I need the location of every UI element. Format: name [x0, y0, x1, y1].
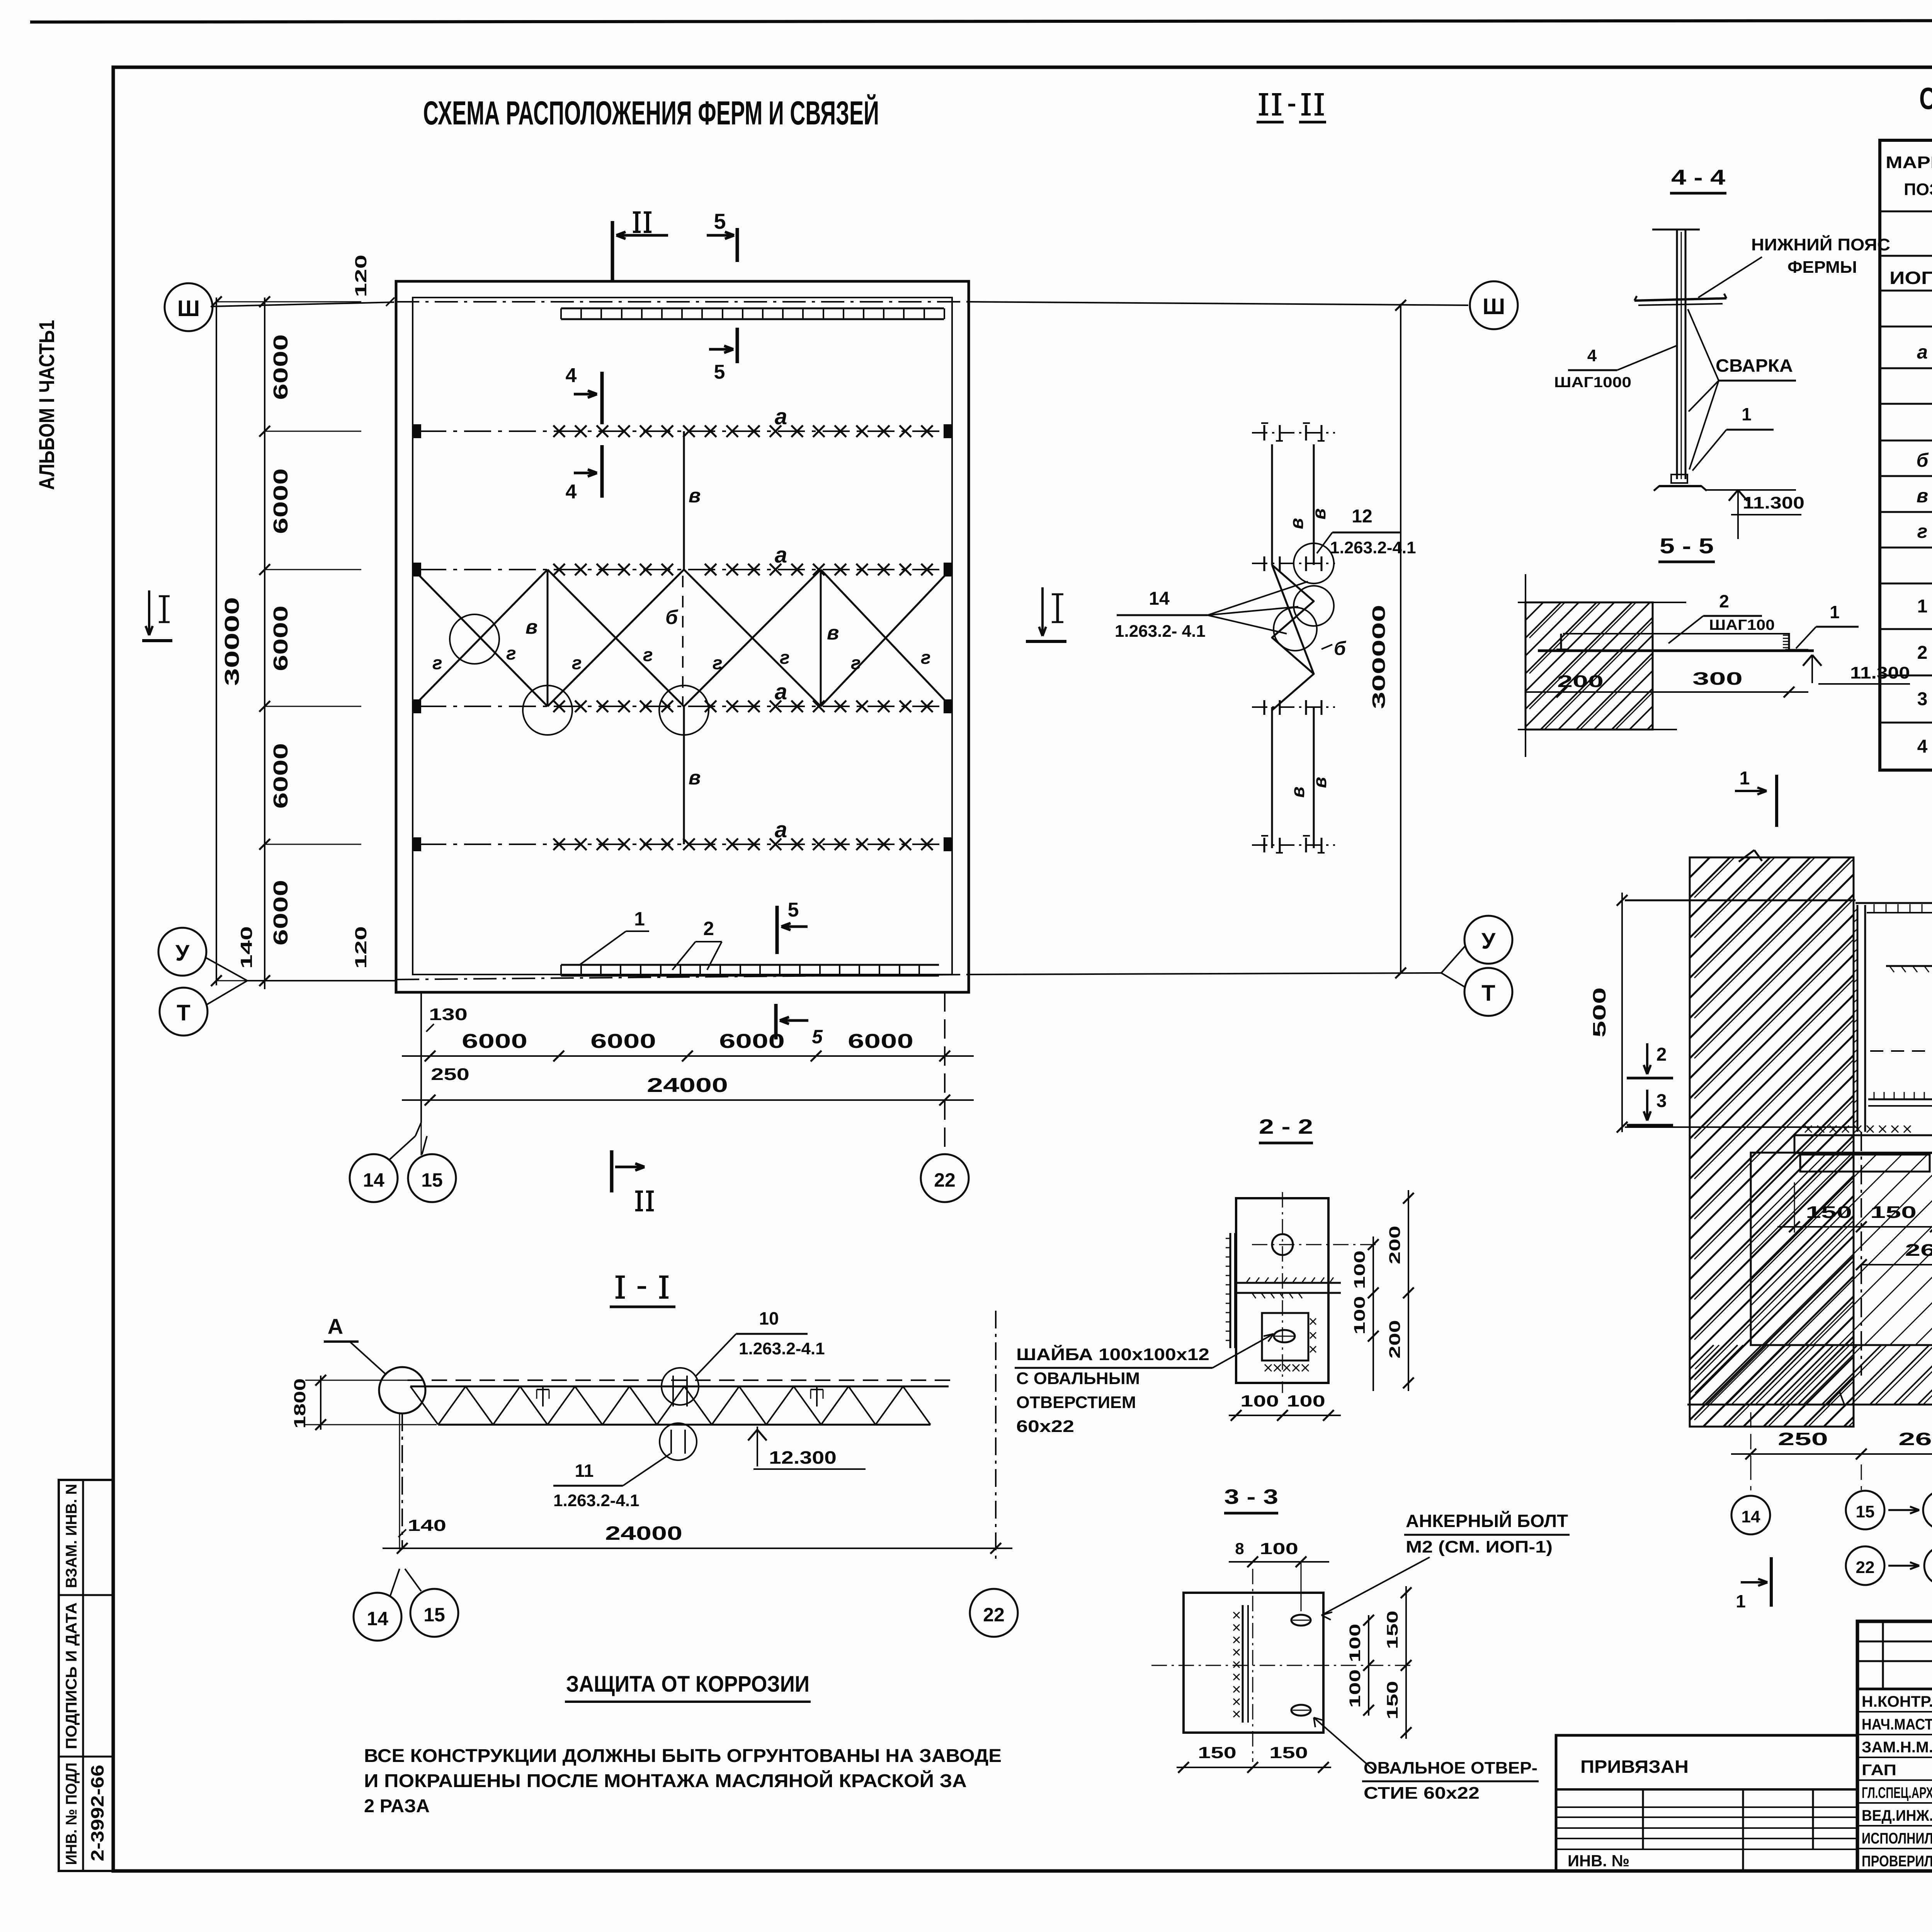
svg-text:г: г — [780, 648, 790, 668]
svg-text:г: г — [432, 653, 442, 673]
svg-text:1.263.2-4.1: 1.263.2-4.1 — [1330, 538, 1416, 557]
svg-text:4: 4 — [566, 481, 577, 503]
elevation I-I left axis — [401, 1413, 403, 1549]
plan strut в at x=2124 — [820, 570, 822, 706]
truss a row 3 axis — [419, 706, 947, 707]
svg-text:5: 5 — [714, 361, 725, 383]
svg-text:11: 11 — [575, 1461, 594, 1481]
detail A foundation center axis — [1861, 1132, 1862, 1376]
svg-text:150: 150 — [1384, 1681, 1401, 1719]
svg-text:У: У — [175, 940, 190, 966]
title block line under top section — [1857, 1688, 1932, 1690]
section II-II title — [1262, 94, 1265, 114]
svg-text:15: 15 — [421, 1169, 443, 1191]
II-II connection row 2 — [1264, 556, 1265, 571]
II-II brace zigzag — [1272, 565, 1314, 710]
detail 2-2 beam — [1236, 1282, 1341, 1284]
detail 2-2 dim bottom 100 100 — [1229, 1415, 1341, 1416]
left dim chain extension lines — [265, 431, 361, 432]
svg-text:100: 100 — [1347, 1624, 1364, 1662]
section mark I right — [1026, 640, 1066, 643]
left strip divider 2 — [59, 1756, 114, 1758]
svg-text:МАРКА,: МАРКА, — [1886, 153, 1932, 172]
svg-text:Ш: Ш — [177, 296, 200, 321]
svg-text:30000: 30000 — [221, 597, 243, 686]
svg-text:24000: 24000 — [605, 1522, 682, 1544]
detail 4-4 elevation 11.300 — [1706, 489, 1796, 491]
svg-text:И ПОКРАШЕНЫ ПОСЛЕ МОНТАЖА: И ПОКРАШЕНЫ ПОСЛЕ МОНТАЖА МАСЛЯНОЙ КРАСК… — [364, 1770, 967, 1791]
detail 3-3 plate — [1184, 1593, 1323, 1733]
detail A dim 150 150 — [1794, 1182, 1795, 1233]
truss a row 2 axis — [419, 569, 947, 570]
detail 5-5 wall top line — [1518, 602, 1686, 603]
svg-text:5: 5 — [788, 899, 799, 921]
svg-text:ШАГ100: ШАГ100 — [1709, 617, 1775, 633]
elevation I-I elevation 12.300 — [748, 1430, 757, 1440]
svg-text:в: в — [1310, 777, 1330, 788]
svg-text:4: 4 — [1917, 736, 1928, 757]
svg-text:100: 100 — [1351, 1250, 1368, 1289]
svg-text:1.263.2-4.1: 1.263.2-4.1 — [739, 1339, 825, 1358]
svg-text:140: 140 — [237, 926, 255, 969]
svg-text:12.300: 12.300 — [769, 1447, 837, 1468]
svg-text:ЗАЩИТА ОТ КОРРОЗИИ: ЗАЩИТА ОТ КОРРОЗИИ — [566, 1672, 810, 1697]
svg-text:a: a — [1917, 341, 1928, 363]
detail 2-2 center lines — [1252, 1244, 1378, 1245]
svg-text:1: 1 — [1830, 602, 1840, 622]
svg-text:a: a — [775, 543, 787, 568]
svg-text:г: г — [1917, 520, 1928, 542]
svg-text:ФЕРМЫ: ФЕРМЫ — [1787, 258, 1857, 277]
svg-text:300: 300 — [1692, 668, 1743, 689]
svg-text:150: 150 — [1870, 1203, 1917, 1222]
svg-text:АНКЕРНЫЙ БОЛТ: АНКЕРНЫЙ БОЛТ — [1406, 1511, 1568, 1531]
svg-text:150: 150 — [1269, 1743, 1308, 1762]
strut в upper — [683, 431, 685, 570]
svg-text:Т: Т — [177, 1000, 190, 1026]
detail 5-5 right bracket — [1788, 633, 1790, 650]
II-II connection row 3 — [1264, 700, 1265, 715]
elevation I-I web — [438, 1386, 930, 1425]
svg-text:г: г — [572, 653, 582, 673]
svg-text:5: 5 — [812, 1026, 823, 1048]
section mark 5 upper-mid — [736, 328, 739, 363]
svg-text:15: 15 — [1856, 1502, 1875, 1521]
svg-text:6000: 6000 — [270, 605, 292, 671]
detail 2-2 dim 100 100 right inner — [1372, 1236, 1374, 1391]
svg-text:8: 8 — [1235, 1539, 1244, 1558]
svg-text:Н.КОНТР.: Н.КОНТР. — [1862, 1693, 1932, 1710]
page top border line — [30, 20, 1932, 22]
grid circle Т right — [1464, 968, 1512, 1016]
svg-text:в: в — [1287, 518, 1307, 529]
section mark II top — [611, 221, 614, 281]
elevation I-I dim 1800 — [320, 1376, 321, 1430]
svg-text:14: 14 — [1149, 588, 1170, 609]
svg-text:в: в — [1309, 509, 1330, 520]
svg-text:ШАЙБА 100х100х12: ШАЙБА 100х100х12 — [1016, 1344, 1209, 1364]
II-II chord left — [1271, 444, 1273, 565]
truss a row 2 x-marks — [553, 564, 565, 575]
elevation I-I dim 24000 — [383, 1548, 1012, 1549]
svg-text:1800: 1800 — [291, 1378, 309, 1429]
svg-text:6000: 6000 — [270, 880, 292, 946]
II-II detail circle 1 — [1294, 543, 1334, 583]
svg-text:СПЕЦИФИКАЦИЯ К СХЕМЕ РАСПОЛ: СПЕЦИФИКАЦИЯ К СХЕМЕ РАСПОЛОЖЕНИЯ ФЕРМ И… — [1919, 81, 1932, 116]
elevation I-I detail circle top — [662, 1368, 699, 1405]
svg-text:1: 1 — [1736, 1591, 1746, 1611]
plan detail circle 3 — [659, 685, 709, 735]
svg-text:6000: 6000 — [462, 1030, 527, 1053]
svg-text:С ОВАЛЬНЫМ: С ОВАЛЬНЫМ — [1016, 1369, 1140, 1388]
detail 4-4 top tick — [1652, 229, 1700, 231]
detail 5-5 elevation 11.300 — [1803, 655, 1812, 666]
svg-text:a: a — [775, 679, 787, 704]
svg-text:100: 100 — [1240, 1392, 1279, 1410]
svg-text:500: 500 — [1589, 987, 1609, 1037]
II-II chord right — [1313, 444, 1315, 565]
detail 4-4 column — [1676, 230, 1678, 479]
truss a row 3 x-marks — [553, 701, 565, 712]
svg-text:СТИЕ 60х22: СТИЕ 60х22 — [1364, 1784, 1480, 1803]
svg-text:ВЗАМ. ИНВ. N: ВЗАМ. ИНВ. N — [63, 1484, 80, 1588]
svg-text:22: 22 — [983, 1604, 1005, 1626]
svg-text:ПОДПИСЬ И ДАТА: ПОДПИСЬ И ДАТА — [63, 1602, 80, 1749]
truss a row 4 x-marks — [553, 838, 565, 850]
detail 2-2 washer oval — [1274, 1330, 1295, 1342]
detail 3-3 dim right 150 150 — [1405, 1586, 1407, 1739]
detail 2-2 dim 200 200 right outer — [1408, 1190, 1409, 1391]
title block top small grid — [1857, 1641, 1932, 1643]
II-II dim 300000 line — [1400, 304, 1401, 974]
truss a row 4 axis — [419, 844, 947, 845]
svg-text:г: г — [643, 645, 653, 665]
svg-text:1.263.2- 4.1: 1.263.2- 4.1 — [1115, 622, 1206, 641]
svg-text:в: в — [1917, 485, 1928, 507]
detail A wall hatched — [1690, 857, 1854, 1427]
svg-text:130: 130 — [429, 1005, 468, 1024]
detail A axis circle 15-22 — [1861, 1464, 1862, 1490]
svg-text:1: 1 — [1742, 404, 1752, 424]
svg-text:10: 10 — [759, 1308, 779, 1328]
detail A top-left line — [1625, 900, 1855, 901]
svg-text:22: 22 — [1856, 1558, 1875, 1577]
left dim 30000 line — [216, 298, 217, 985]
plan bottom axis 22 extension — [944, 992, 946, 1153]
svg-text:ПОЗ.: ПОЗ. — [1904, 180, 1932, 199]
detail 3-3 dim bottom 150 150 — [1177, 1767, 1331, 1768]
svg-text:б: б — [665, 606, 679, 629]
II-II connection row 1 — [1264, 425, 1265, 440]
II-II detail circle 2 — [1294, 586, 1334, 626]
truss a row 2 end plates — [413, 563, 420, 576]
plan axis circle 15 — [408, 1154, 456, 1202]
elevation I-I right axis — [995, 1311, 997, 1563]
svg-text:5: 5 — [714, 209, 726, 233]
section mark 4 lower — [600, 445, 604, 498]
title block outer — [1857, 1621, 1932, 1871]
detail 5-5 wall hatched block — [1526, 602, 1653, 730]
svg-text:2 РАЗА: 2 РАЗА — [364, 1796, 430, 1816]
elevation I-I posts — [542, 1386, 544, 1406]
detail 5-5 beam top line — [1563, 633, 1789, 634]
svg-text:260: 260 — [1898, 1429, 1932, 1449]
svg-text:a: a — [775, 404, 787, 429]
elevation I-I axis circle 22 — [970, 1589, 1018, 1637]
elevation I-I axis circle 14 — [354, 1593, 401, 1641]
elevation I-I detail circle bottom — [660, 1423, 697, 1460]
detail 3-3 anchor strip — [1242, 1605, 1244, 1723]
svg-text:ОВАЛЬНОЕ ОТВЕР-: ОВАЛЬНОЕ ОТВЕР- — [1364, 1759, 1537, 1777]
svg-text:11.300: 11.300 — [1850, 663, 1910, 682]
svg-text:1.263.2-4.1: 1.263.2-4.1 — [553, 1491, 639, 1510]
svg-text:б: б — [1334, 638, 1347, 659]
detail 2-2 washer hatch — [1265, 1364, 1272, 1371]
svg-text:ИНВ. № ПОДЛ: ИНВ. № ПОДЛ — [63, 1763, 80, 1865]
svg-text:4 - 4: 4 - 4 — [1671, 165, 1725, 189]
привязан grid — [1556, 1806, 1857, 1808]
svg-text:150: 150 — [1384, 1611, 1401, 1649]
plan outer wall — [396, 281, 969, 992]
svg-text:4: 4 — [566, 364, 577, 387]
svg-text:100: 100 — [1287, 1392, 1325, 1410]
svg-text:Ш: Ш — [1483, 294, 1505, 319]
svg-text:в: в — [526, 616, 537, 638]
plan axis circle 22 — [921, 1154, 969, 1202]
detail 2-2 side strip — [1230, 1233, 1231, 1348]
svg-text:ЗАМ.Н.М.: ЗАМ.Н.М. — [1862, 1739, 1932, 1756]
svg-text:СХЕМА РАСПОЛОЖЕНИЯ ФЕРМ И: СХЕМА РАСПОЛОЖЕНИЯ ФЕРМ И СВЯЗЕЙ — [423, 94, 879, 132]
detail 3-3 dim right 100 100 — [1368, 1615, 1369, 1716]
svg-text:А: А — [328, 1314, 343, 1338]
svg-text:АЛЬБОМ I ЧАСТЬ1: АЛЬБОМ I ЧАСТЬ1 — [34, 320, 59, 490]
section mark 5 lower — [776, 906, 779, 954]
bottom wall purlin strip — [561, 964, 939, 966]
svg-text:15: 15 — [423, 1604, 445, 1626]
II-II detail circle 3 — [1274, 607, 1317, 651]
svg-text:6000: 6000 — [270, 743, 292, 809]
truss a row 1 end plates — [413, 425, 420, 437]
svg-text:250: 250 — [1778, 1429, 1828, 1449]
svg-text:СВАРКА: СВАРКА — [1716, 355, 1793, 376]
detail 2-2 washer — [1262, 1313, 1308, 1361]
plan detail circle 1 — [450, 614, 499, 664]
truss a row 1 axis — [419, 430, 947, 432]
svg-text:ШАГ1000: ШАГ1000 — [1554, 374, 1631, 391]
strut в lower — [683, 706, 685, 844]
left strip outer box — [59, 1480, 114, 1871]
svg-text:М2 (СМ. ИОП-1): М2 (СМ. ИОП-1) — [1406, 1537, 1553, 1556]
svg-text:3: 3 — [1656, 1091, 1667, 1111]
detail 5-5 beam plate — [1538, 650, 1814, 652]
detail 2-2 plate — [1236, 1198, 1328, 1383]
detail A foundation — [1751, 1153, 1932, 1345]
svg-text:г: г — [851, 653, 861, 673]
svg-text:6000: 6000 — [590, 1030, 656, 1053]
svg-text:5 - 5: 5 - 5 — [1660, 534, 1714, 558]
svg-text:в: в — [1288, 787, 1308, 798]
detail 3-3 center lines — [1252, 1569, 1253, 1762]
svg-text:6000: 6000 — [270, 334, 292, 400]
section mark 2 down — [1646, 1043, 1648, 1074]
svg-text:НАЧ.МАСТ: НАЧ.МАСТ — [1862, 1716, 1932, 1733]
svg-text:12: 12 — [1352, 506, 1372, 527]
plan bottom dim 24000 — [402, 1099, 974, 1101]
elevation I-I detail circle A — [379, 1367, 425, 1413]
svg-text:3 - 3: 3 - 3 — [1224, 1485, 1278, 1509]
svg-text:150: 150 — [1198, 1743, 1236, 1762]
svg-text:100: 100 — [1347, 1669, 1364, 1708]
svg-text:НИЖНИЙ ПОЯС: НИЖНИЙ ПОЯС — [1751, 235, 1890, 254]
svg-text:ИСПОЛНИЛ: ИСПОЛНИЛ — [1862, 1830, 1932, 1847]
svg-text:ПРИВЯЗАН: ПРИВЯЗАН — [1580, 1757, 1689, 1777]
detail 4-4 flange — [1634, 298, 1726, 301]
svg-text:120: 120 — [352, 255, 370, 297]
svg-text:100: 100 — [1351, 1296, 1368, 1335]
grid circle У left — [158, 928, 206, 976]
svg-text:б: б — [1917, 449, 1929, 471]
detail A column — [1857, 905, 1859, 1132]
detail A axis circle 14 — [1750, 1464, 1752, 1490]
svg-text:ПРОВЕРИЛ: ПРОВЕРИЛ — [1862, 1853, 1932, 1870]
detail 4-4 base plate — [1671, 474, 1687, 483]
svg-text:24000: 24000 — [647, 1074, 728, 1097]
svg-text:200: 200 — [1386, 1226, 1403, 1264]
svg-text:300000: 300000 — [1369, 605, 1389, 709]
detail A xxx hatch under column — [1805, 1126, 1812, 1133]
svg-text:11.300: 11.300 — [1743, 493, 1804, 512]
svg-text:ИНВ. №: ИНВ. № — [1568, 1852, 1629, 1870]
svg-text:ОТВЕРСТИЕМ: ОТВЕРСТИЕМ — [1016, 1393, 1136, 1412]
svg-text:2: 2 — [703, 918, 714, 939]
detail 5-5 angle seat — [1560, 634, 1562, 650]
plan detail circle 2 — [523, 685, 572, 735]
svg-text:ГЛ.СПЕЦ.АРХ: ГЛ.СПЕЦ.АРХ — [1862, 1784, 1932, 1801]
left strip divider 1 — [59, 1594, 114, 1596]
truss a row 4 end plates — [413, 838, 420, 850]
привязан block — [1556, 1735, 1857, 1871]
section mark 1 below detail A — [1770, 1557, 1773, 1607]
detail A bottom axis dim 250 260 — [1750, 1412, 1752, 1464]
svg-text:4: 4 — [1587, 346, 1597, 365]
svg-text:2: 2 — [1656, 1044, 1667, 1065]
elevation I-I title — [619, 1277, 622, 1298]
truss a row 3 end plates — [413, 700, 420, 713]
svg-text:6000: 6000 — [270, 468, 292, 534]
detail A lower band break — [1828, 1391, 1839, 1405]
detail A wall top break — [1739, 850, 1754, 862]
detail 5-5 dim 200-300 — [1526, 691, 1808, 693]
truss a row 1 x-marks — [553, 425, 565, 437]
svg-text:1: 1 — [1917, 596, 1928, 617]
plan inner wall — [413, 298, 952, 975]
elevation I-I axis circle 15 — [410, 1589, 458, 1637]
detail A bearing plates — [1794, 1135, 1932, 1153]
svg-text:260: 260 — [1905, 1241, 1932, 1260]
left dim chain 6000 line — [264, 298, 265, 989]
detail A axis line — [1625, 1126, 1855, 1128]
svg-text:2-3992-66: 2-3992-66 — [87, 1765, 107, 1861]
svg-text:в: в — [827, 622, 839, 644]
cross braces г between rows 2-3 — [413, 570, 548, 706]
svg-text:60х22: 60х22 — [1016, 1417, 1074, 1436]
section mark I left of plan — [142, 639, 172, 642]
plan bottom axis 15 extension — [420, 992, 422, 1122]
detail 5-5 wall bottom line — [1518, 729, 1677, 730]
detail A dim 260 — [1861, 1264, 1932, 1265]
section mark II below plan — [610, 1150, 614, 1192]
grid circle У right — [1464, 916, 1512, 964]
plan axis circle 14 — [350, 1154, 398, 1202]
II-II connection row 4 — [1264, 838, 1265, 852]
elevation I-I bottom chord — [438, 1424, 930, 1426]
svg-text:Т: Т — [1481, 981, 1495, 1006]
svg-text:ВЕД.ИНЖ.: ВЕД.ИНЖ. — [1862, 1807, 1932, 1824]
svg-text:г: г — [506, 643, 516, 664]
detail 3-3 oval top — [1291, 1615, 1311, 1626]
section mark 3 down — [1646, 1090, 1648, 1121]
detail A top beam — [1855, 902, 1932, 904]
detail A foundation lower band — [1690, 1345, 1932, 1405]
section mark 5 below plan — [774, 1004, 778, 1039]
svg-text:100: 100 — [1260, 1539, 1298, 1558]
detail A axis circle 22-15 — [1846, 1546, 1884, 1585]
plan strut в at x=1417 — [547, 570, 549, 706]
plan bottom dim chain 6000 — [402, 1055, 974, 1057]
svg-text:14: 14 — [1742, 1507, 1760, 1526]
svg-text:в: в — [689, 485, 701, 507]
svg-text:3: 3 — [1917, 689, 1928, 709]
svg-text:2 - 2: 2 - 2 — [1259, 1115, 1313, 1138]
grid circle Ш right — [1470, 281, 1518, 329]
svg-text:2: 2 — [1719, 591, 1729, 611]
svg-text:250: 250 — [431, 1065, 469, 1084]
detail 5-5 wall left axis — [1525, 574, 1526, 757]
svg-text:200: 200 — [1557, 672, 1604, 691]
spec table row lines — [1880, 211, 1932, 213]
spec table outer box — [1880, 140, 1932, 770]
svg-text:14: 14 — [363, 1169, 384, 1191]
svg-text:6000: 6000 — [848, 1030, 913, 1053]
svg-text:1: 1 — [634, 908, 645, 930]
detail 2-2 bolt hole — [1272, 1234, 1293, 1255]
elevation I-I top chord — [408, 1379, 950, 1381]
detail A lower chord stub — [1868, 1099, 1932, 1100]
strut б middle dashed — [682, 576, 684, 706]
svg-text:У: У — [1481, 929, 1496, 954]
grid circle Ш left — [165, 283, 213, 331]
svg-text:22: 22 — [934, 1169, 956, 1191]
grid line У-Т — [247, 980, 396, 981]
svg-text:г: г — [713, 653, 723, 673]
svg-text:150: 150 — [1806, 1203, 1852, 1222]
grid circle Т left — [160, 988, 207, 1036]
svg-text:2: 2 — [1917, 643, 1928, 663]
grid line Ш — [213, 302, 394, 306]
svg-text:140: 140 — [408, 1516, 446, 1534]
svg-text:120: 120 — [352, 926, 370, 969]
svg-text:г: г — [921, 648, 931, 668]
detail A dim 500 — [1621, 893, 1623, 1132]
svg-text:ГАП: ГАП — [1862, 1762, 1896, 1779]
svg-text:ИОП-1: ИОП-1 — [1889, 268, 1932, 288]
svg-text:ВСЕ КОНСТРУКЦИИ ДОЛЖНЫ БЫТ: ВСЕ КОНСТРУКЦИИ ДОЛЖНЫ БЫТЬ ОГРУНТОВАНЫ … — [364, 1746, 1002, 1766]
left strip inner vertical divider — [82, 1480, 84, 1871]
svg-text:в: в — [689, 767, 701, 789]
svg-text:14: 14 — [367, 1608, 388, 1629]
svg-text:1: 1 — [1740, 768, 1750, 789]
top wall purlin strip — [561, 308, 944, 310]
